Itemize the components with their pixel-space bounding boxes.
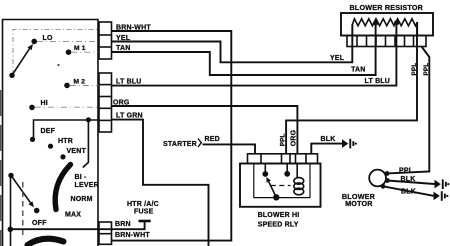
resistor connector pin row <box>347 36 426 47</box>
contact M1 <box>66 49 72 55</box>
svg-text:M 1: M 1 <box>74 45 86 52</box>
svg-text:RED: RED <box>205 136 220 143</box>
contact VENT <box>60 154 65 159</box>
svg-text:BRN: BRN <box>115 221 131 228</box>
connector pins (bottom group) <box>99 222 112 244</box>
wire LT BLU <box>112 23 397 86</box>
svg-text:BRN-WHT: BRN-WHT <box>116 24 151 31</box>
lever slot arc <box>55 165 70 210</box>
wire BLK (relay to ground) <box>311 144 342 154</box>
wire mode selector link <box>83 120 89 168</box>
connector pins (middle group) <box>99 73 112 132</box>
relay contact 2 <box>284 164 290 177</box>
relay contact 1 <box>262 164 268 177</box>
wire BRN to fuse <box>112 222 145 229</box>
off switch wiper arm <box>11 175 34 207</box>
svg-text:PPL: PPL <box>399 167 414 174</box>
wire BLK 1 (motor) <box>387 181 434 185</box>
connector pins (top group) <box>99 22 112 59</box>
wire BRN inside switch <box>10 228 111 230</box>
svg-text:LEVER: LEVER <box>75 182 99 189</box>
svg-text:ORG: ORG <box>113 99 130 106</box>
svg-text:M 2: M 2 <box>74 78 86 85</box>
svg-text:PPL: PPL <box>411 63 418 76</box>
svg-text:PPL: PPL <box>280 133 287 146</box>
wire HI to connector (dash-dot) <box>35 106 99 108</box>
ground (motor 2) <box>434 191 449 201</box>
relay box <box>240 164 321 207</box>
wire LO to connector (dash-dot) <box>37 40 99 42</box>
wire RED from starter <box>203 144 256 153</box>
relay armature <box>266 177 279 201</box>
svg-text:FUSE: FUSE <box>134 209 154 216</box>
blower resistor box <box>341 13 433 36</box>
node motor BLK 1 <box>385 178 390 183</box>
relay actuation dashed link <box>271 185 291 187</box>
svg-text:BRN-WHT: BRN-WHT <box>115 232 150 239</box>
off switch pivot contact <box>8 173 13 178</box>
ground (relay) <box>342 139 357 149</box>
node motor PPL <box>385 171 390 176</box>
contact OFF <box>34 208 40 214</box>
svg-text:PPL: PPL <box>423 63 430 76</box>
contact HTR <box>48 144 53 149</box>
node BRN junction <box>8 227 14 233</box>
contact M2 <box>64 83 70 89</box>
wire BLK 2 (motor) <box>383 186 434 196</box>
fan switch wiper arm <box>12 44 33 75</box>
svg-text:BLK: BLK <box>401 189 416 196</box>
svg-text:HI: HI <box>41 100 48 107</box>
scan edge artifact <box>0 90 2 246</box>
wire LT GRN <box>112 120 209 246</box>
node LT GRN junction <box>86 117 91 122</box>
svg-text:YEL: YEL <box>330 55 345 62</box>
fuse HTR/A/C symbol <box>139 220 151 223</box>
svg-text:DEF: DEF <box>41 128 56 135</box>
contact DEF <box>30 137 35 142</box>
bottom lever arc <box>28 239 64 245</box>
wire M1 to connector (dash-dot) <box>71 51 99 53</box>
blower motor <box>369 170 386 187</box>
svg-text:SPEED RLY: SPEED RLY <box>258 222 299 229</box>
svg-text:BLOWER RESISTOR: BLOWER RESISTOR <box>350 3 424 12</box>
svg-text:ORG: ORG <box>291 129 298 146</box>
svg-text:MOTOR: MOTOR <box>345 199 373 208</box>
dashed travel line <box>22 182 24 236</box>
dashed guide line (top) <box>13 30 97 76</box>
relay coil <box>294 164 304 195</box>
starter bracket <box>198 139 201 148</box>
wire M2 to connector (dash-dot) <box>70 85 99 87</box>
wire TAN <box>112 23 376 75</box>
svg-text:STARTER: STARTER <box>163 141 197 148</box>
svg-text:HTR: HTR <box>58 138 73 145</box>
svg-text:LT GRN: LT GRN <box>116 112 143 119</box>
svg-text:MAX: MAX <box>65 211 81 218</box>
wire BRN-WHT (top) <box>112 31 232 241</box>
wire YEL <box>112 25 353 63</box>
relay inner box <box>254 164 310 198</box>
svg-text:VENT: VENT <box>67 148 87 155</box>
svg-text:OFF: OFF <box>32 220 47 227</box>
relay connector strip <box>248 154 318 164</box>
heater control switch assembly box <box>3 20 99 246</box>
node motor BLK 2 <box>381 184 386 189</box>
svg-text:BI -: BI - <box>75 174 88 181</box>
wire ORG <box>112 106 298 154</box>
wire PPL 2 (resistor to motor) <box>387 47 429 174</box>
svg-text:YEL: YEL <box>116 35 131 42</box>
contact LO <box>31 39 37 45</box>
svg-text:HTR /A/C: HTR /A/C <box>127 201 159 208</box>
fan switch pivot contact <box>9 73 14 78</box>
wire PPL (resistor to relay) <box>286 26 417 154</box>
svg-text:NORM: NORM <box>71 196 93 203</box>
mode section inner box top edge <box>34 120 100 140</box>
svg-text:BLK: BLK <box>321 136 336 143</box>
wire pivot feed down to BRN junction <box>10 175 12 246</box>
stray contact tick <box>57 64 59 66</box>
svg-text:LT BLU: LT BLU <box>116 79 142 86</box>
svg-text:TAN: TAN <box>116 45 130 52</box>
resistor tap node 1 <box>373 20 378 25</box>
svg-text:TAN: TAN <box>351 67 365 74</box>
svg-text:BLK: BLK <box>401 176 416 183</box>
resistor tap node 2 <box>394 20 399 25</box>
resistor element zigzag <box>352 19 417 36</box>
contact HI <box>29 105 35 111</box>
svg-text:BLOWER HI: BLOWER HI <box>258 212 300 219</box>
ground (motor 1) <box>435 179 450 189</box>
svg-text:LT BLU: LT BLU <box>365 78 391 85</box>
